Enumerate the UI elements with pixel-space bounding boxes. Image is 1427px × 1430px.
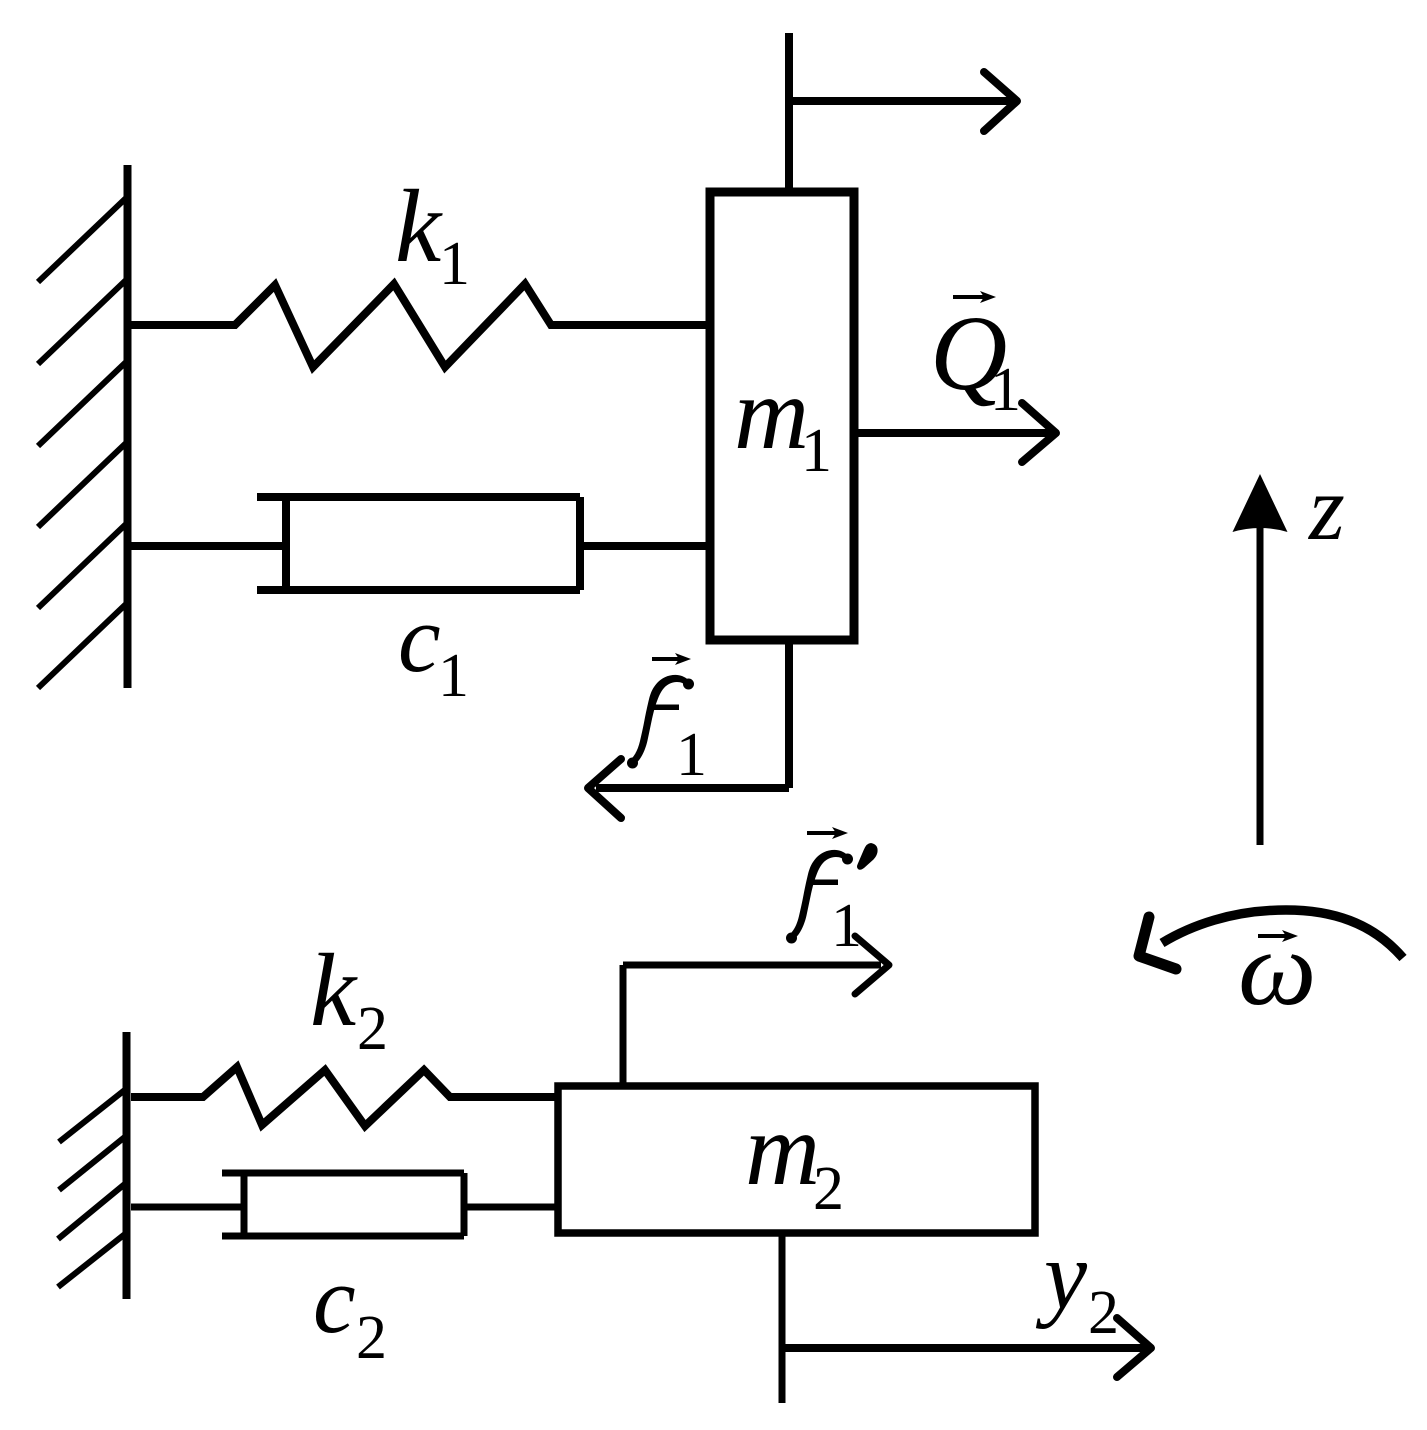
svg-text:1: 1 — [439, 230, 470, 298]
svg-text:2: 2 — [1088, 1279, 1119, 1347]
svg-text:1: 1 — [801, 417, 832, 485]
damper c2 — [131, 1173, 558, 1236]
arrow f1prime (from top of m2) — [623, 936, 889, 1086]
svg-text:k: k — [310, 933, 358, 1048]
arrow omega (curved rotation arrow) — [1139, 910, 1403, 969]
arrow Q1 — [858, 403, 1056, 462]
svg-text:ω: ω — [1238, 909, 1317, 1027]
axis z arrow — [1233, 474, 1288, 845]
wire: top pole above m1 — [785, 33, 793, 192]
label f1prime with vector arrow — [786, 827, 878, 960]
label z — [1307, 457, 1345, 559]
label m2 — [745, 1092, 844, 1223]
wall W2 hatching — [58, 1089, 126, 1287]
spring k2 — [131, 1067, 558, 1126]
svg-text:k: k — [395, 169, 443, 284]
svg-text:1: 1 — [676, 721, 707, 789]
svg-text:1: 1 — [438, 642, 469, 710]
svg-text:c: c — [398, 585, 441, 692]
svg-text:2: 2 — [356, 1304, 387, 1372]
label k2 — [310, 933, 388, 1063]
label omega with vector arrow — [1238, 909, 1317, 1027]
svg-text:1: 1 — [831, 892, 862, 960]
label c2 — [313, 1246, 387, 1372]
svg-text:m: m — [734, 356, 809, 471]
svg-text:1: 1 — [990, 356, 1021, 424]
arrow f1 (leftward) — [588, 759, 789, 818]
arrow y2 — [782, 1318, 1151, 1377]
svg-text:c: c — [313, 1246, 356, 1353]
damper c1 — [131, 497, 710, 590]
label Q1 with vector arrow — [930, 291, 1021, 424]
label c1 — [398, 585, 469, 710]
label f1 with vector arrow — [627, 653, 707, 789]
svg-text:z: z — [1307, 457, 1345, 559]
arrow: unnamed top displacement arrow — [789, 72, 1017, 131]
svg-text:2: 2 — [813, 1155, 844, 1223]
wall W2 (lower fixed support) — [123, 1032, 131, 1299]
svg-text:m: m — [745, 1092, 820, 1207]
mass m2 — [558, 1086, 1035, 1233]
wire: bottom pole below m1 — [785, 640, 793, 788]
svg-text:2: 2 — [357, 995, 388, 1063]
label y2 — [1035, 1222, 1119, 1347]
mass m1 — [710, 192, 854, 640]
spring k1 — [131, 284, 710, 367]
wall W1 hatching — [38, 198, 126, 688]
label m1 — [734, 356, 832, 485]
wall W1 (upper fixed support) — [124, 165, 132, 688]
label k1 — [395, 169, 470, 298]
wire: bottom pole below m2 — [779, 1233, 786, 1403]
